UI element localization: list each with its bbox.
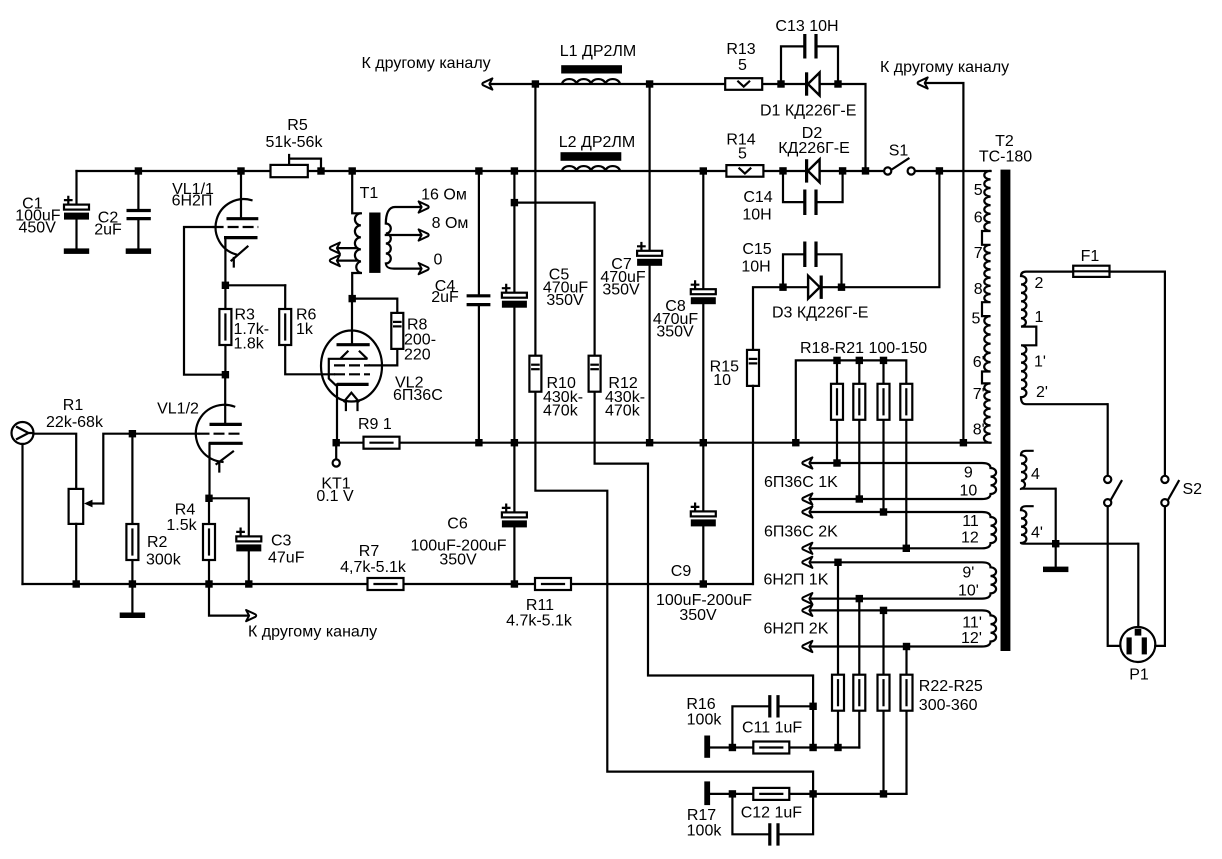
choke L1 winding: [562, 79, 620, 84]
svg-text:12: 12: [961, 530, 979, 547]
junction VL1/1 anode: [237, 167, 244, 174]
capacitor C1: [64, 171, 89, 248]
svg-text:R5: R5: [287, 117, 308, 134]
svg-text:47uF: 47uF: [268, 550, 305, 567]
svg-text:7: 7: [974, 245, 983, 262]
svg-text:К другому каналу: К другому каналу: [248, 624, 377, 641]
ground symbol at C2: [126, 248, 151, 254]
terminal bar R16: [704, 736, 710, 758]
wire input jack to R1 top: [33, 434, 76, 489]
svg-text:D3 КД226Г-Е: D3 КД226Г-Е: [772, 305, 868, 322]
svg-text:6Н2П 1K: 6Н2П 1K: [764, 572, 829, 589]
connector arrow winding 10: [802, 493, 812, 504]
svg-text:51k-56k: 51k-56k: [266, 134, 324, 151]
junction D3 anode: [779, 284, 786, 291]
junction R17 right: [809, 790, 816, 797]
svg-text:4.7k-5.1k: 4.7k-5.1k: [506, 613, 573, 630]
T1 secondary 0 tap: [386, 264, 420, 269]
junction R1 bottom: [73, 580, 80, 587]
VL2 anode bar: [337, 343, 370, 346]
junction R2 top: [129, 430, 136, 437]
wire R3 top to R6 top: [225, 284, 285, 286]
capacitor C9: [691, 443, 716, 584]
resistor R25: [901, 647, 913, 794]
junction C5 bottom: [511, 439, 518, 446]
svg-text:6П36С 2K: 6П36С 2K: [764, 524, 838, 541]
svg-text:S2: S2: [1183, 481, 1203, 498]
svg-text:ТС-180: ТС-180: [979, 149, 1032, 166]
svg-text:T1: T1: [360, 185, 379, 202]
diode D3: [808, 276, 821, 299]
grid bus R18-R21 top: [796, 360, 907, 442]
connector arrow winding 11': [802, 605, 812, 616]
svg-text:350V: 350V: [439, 552, 477, 569]
svg-text:S1: S1: [889, 143, 909, 160]
svg-text:470k: 470k: [605, 403, 641, 420]
potentiometer R1: [69, 489, 104, 524]
svg-text:0: 0: [434, 252, 443, 269]
junction R19 to pin 10: [856, 495, 863, 502]
svg-text:450V: 450V: [19, 219, 57, 236]
svg-text:R13: R13: [726, 41, 755, 58]
input jack XS1: [12, 422, 34, 444]
resistor R8: [370, 313, 404, 366]
junction D3 cathode: [838, 284, 845, 291]
svg-text:7': 7': [973, 386, 985, 403]
svg-text:4': 4': [1031, 525, 1043, 542]
capacitor C4: [467, 171, 491, 443]
capacitor C12 loop: [732, 794, 813, 834]
resistor R2: [126, 434, 138, 584]
resistor R9: [364, 437, 400, 449]
resistor R7: [368, 578, 404, 590]
svg-text:R16: R16: [686, 696, 715, 713]
capacitor C15 loop: [783, 254, 842, 287]
connector arrow winding 10': [802, 593, 812, 604]
connector arrow winding 9': [802, 557, 812, 568]
ground symbol at T2 heater: [1043, 544, 1068, 572]
connector arrow to other channel (bottom): [246, 610, 256, 621]
svg-text:5: 5: [738, 57, 747, 74]
svg-text:350V: 350V: [546, 292, 584, 309]
junction C5 top tap: [511, 199, 518, 206]
svg-text:100k: 100k: [687, 823, 723, 840]
VL2 heater: [344, 393, 358, 410]
svg-text:R22-R25: R22-R25: [919, 678, 983, 695]
wire C5 feed / R12 jog: [514, 171, 594, 356]
ground bus wire (bottom rail): [23, 583, 753, 585]
VL1/1 cathode lead: [224, 238, 226, 286]
capacitor C6: [502, 443, 527, 584]
svg-text:КД226Г-Е: КД226Г-Е: [778, 140, 850, 157]
wire cathode to C3: [209, 498, 249, 536]
junction R24 bottom: [880, 790, 887, 797]
junction C8 bottom / C9 top: [700, 439, 707, 446]
capacitor C11 plates: [770, 695, 778, 717]
svg-text:9: 9: [964, 465, 973, 482]
junction R4 bottom: [205, 580, 212, 587]
wire T1 bottom to R8: [352, 299, 397, 313]
resistor R20: [878, 360, 890, 512]
junction S1 output: [936, 167, 943, 174]
wire R1 bottom to ground bus: [75, 524, 77, 584]
svg-text:100k: 100k: [687, 712, 723, 729]
connector arrow 16 Ом: [419, 201, 429, 212]
svg-text:C14: C14: [743, 189, 772, 206]
capacitor C11 loop: [732, 706, 813, 747]
wire S2 pole A to P1: [1108, 506, 1121, 646]
T2 heater winding 6Н2П 1K: [811, 562, 997, 598]
junction VL1/2 cathode / R4: [205, 495, 212, 502]
svg-text:220: 220: [404, 347, 431, 364]
svg-text:2uF: 2uF: [431, 289, 459, 306]
svg-text:16 Ом: 16 Ом: [421, 187, 467, 204]
svg-text:10: 10: [960, 483, 978, 500]
T1 primary winding: [355, 213, 361, 273]
svg-text:11': 11': [962, 615, 982, 632]
svg-text:22k-68k: 22k-68k: [46, 414, 104, 431]
junction C6 bottom: [511, 580, 518, 587]
junction R24 to pin 11': [880, 607, 887, 614]
resistor R24: [878, 610, 890, 794]
wire top right arrow to T2 tap 8': [926, 83, 963, 443]
VL2 beam plates: [329, 352, 367, 386]
svg-text:10Н: 10Н: [742, 207, 771, 224]
wire heater common to P1 top: [1137, 544, 1139, 627]
wire to other channel (bottom): [209, 584, 247, 616]
junction R22 bottom: [834, 744, 841, 751]
VL1/1 grid (dashed): [213, 226, 259, 228]
junction VL2 cathode: [333, 439, 340, 446]
T2 heater winding 4': [1021, 506, 1138, 544]
svg-text:C11 1uF: C11 1uF: [742, 720, 802, 737]
junction cathode VL1/1 / R3 top: [222, 282, 229, 289]
junction C4 bottom: [475, 439, 482, 446]
svg-text:L2 ДР2ЛМ: L2 ДР2ЛМ: [559, 134, 635, 151]
junction C2 top: [135, 167, 142, 174]
svg-text:300k: 300k: [146, 552, 182, 569]
junction L1 output / C7: [646, 80, 653, 87]
svg-text:6': 6': [973, 354, 985, 371]
svg-text:P1: P1: [1129, 667, 1149, 684]
bias feed wire R17 row: [710, 793, 906, 795]
svg-text:C12 1uF: C12 1uF: [741, 805, 803, 822]
svg-text:350V: 350V: [602, 282, 640, 299]
svg-text:350V: 350V: [679, 607, 717, 624]
T1 primary bottom lead: [352, 273, 361, 299]
VL2 anode lead: [351, 299, 353, 344]
T1 secondary 16 Ohm tap: [386, 207, 420, 224]
junction R3 bottom / VL1/2 anode: [222, 371, 229, 378]
choke L1 core: [561, 65, 622, 73]
choke L2 winding: [562, 166, 620, 171]
svg-text:300-360: 300-360: [919, 697, 978, 714]
svg-text:1': 1': [1034, 354, 1046, 371]
switch S2 pole A: [1104, 476, 1121, 507]
VL2 cathode bar: [337, 383, 369, 386]
svg-text:R9 1: R9 1: [358, 416, 392, 433]
rheostat R5: [271, 155, 322, 177]
triode VL1/1 envelope: [216, 199, 252, 254]
junction grid bus at cathode rail: [792, 439, 799, 446]
svg-text:R18-R21 100-150: R18-R21 100-150: [800, 340, 927, 357]
B+ rail 1 (y=84): [491, 84, 866, 171]
junction D2 cathode: [839, 167, 846, 174]
triode VL1/2 envelope: [196, 405, 234, 462]
B+ rail (upper left, y=171): [77, 170, 991, 172]
T1 primary lead from rail: [352, 171, 361, 213]
resistor R21: [900, 384, 912, 549]
junction R20 bus: [880, 357, 887, 364]
resistor R10: [529, 84, 813, 794]
VL1/2 anode bar: [210, 423, 242, 426]
svg-text:C9: C9: [671, 563, 692, 580]
svg-text:8 Ом: 8 Ом: [432, 215, 469, 232]
svg-text:2uF: 2uF: [94, 222, 122, 239]
wire input jack sleeve down: [21, 444, 23, 584]
VL1/2 grid (dashed): [199, 433, 244, 435]
svg-text:1: 1: [1035, 309, 1044, 326]
VL2 screen grid (dashed): [334, 364, 370, 366]
terminal bar R17: [704, 781, 710, 805]
svg-text:К другому каналу: К другому каналу: [880, 59, 1009, 76]
svg-text:R2: R2: [147, 534, 168, 551]
cathode bus wire (y=443): [336, 442, 990, 444]
VL1/1 heater mark: [232, 247, 248, 267]
svg-text:350V: 350V: [656, 324, 694, 341]
capacitor C7: [637, 84, 662, 443]
svg-text:D1 КД226Г-Е: D1 КД226Г-Е: [760, 103, 856, 120]
junction C12 left: [729, 790, 736, 797]
svg-text:F1: F1: [1081, 248, 1100, 265]
svg-text:4,7k-5.1k: 4,7k-5.1k: [340, 559, 407, 576]
svg-text:L1 ДР2ЛМ: L1 ДР2ЛМ: [560, 43, 636, 60]
svg-text:VL1/2: VL1/2: [157, 401, 199, 418]
bias feed wire R16 row: [710, 746, 859, 748]
svg-text:10Н: 10Н: [741, 259, 770, 276]
pentode VL2 envelope: [321, 331, 382, 402]
svg-text:2: 2: [1035, 275, 1044, 292]
svg-text:0.1 V: 0.1 V: [316, 488, 354, 505]
junction R21 to pin 12: [903, 545, 910, 552]
diode D1: [807, 72, 820, 95]
junction L1 input: [532, 80, 539, 87]
VL1/1 cathode bar: [224, 236, 258, 239]
junction C3 bottom: [245, 580, 252, 587]
junction D1 branch to rail: [862, 167, 869, 174]
capacitor C5: [502, 285, 527, 443]
T1 core: [369, 213, 380, 273]
T2 heater winding 6П36С 2K: [811, 512, 997, 548]
VL1/1 anode bar: [227, 217, 259, 220]
switch S2 pole B: [1161, 476, 1178, 507]
capacitor C2: [127, 171, 151, 248]
T2 primary winding (anode): [982, 171, 991, 443]
junction winding 4 / 4': [1052, 540, 1059, 547]
wire 2' to S2 left pole: [1107, 404, 1109, 476]
VL1/1 anode lead: [240, 171, 242, 217]
connector arrow to other channel (top right): [918, 77, 928, 88]
svg-text:6П36С 1K: 6П36С 1K: [764, 474, 838, 491]
VL1/1 grid wire to R3 bottom: [184, 227, 225, 375]
svg-text:11: 11: [962, 513, 979, 530]
junction C11 left: [729, 744, 736, 751]
svg-text:5': 5': [972, 311, 984, 328]
svg-text:C3: C3: [271, 533, 292, 550]
wire S2 pole B to P1: [1155, 506, 1165, 646]
junction R18 to pin 9: [833, 459, 840, 466]
capacitor C14 plates: [805, 190, 816, 216]
resistor R17: [753, 788, 789, 800]
svg-text:10': 10': [958, 583, 979, 600]
connector arrow winding 12': [802, 641, 812, 652]
resistor R13: [725, 78, 762, 90]
T2 heater winding 4: [1021, 451, 1056, 489]
connector arrow 0: [419, 263, 429, 274]
svg-text:К другому каналу: К другому каналу: [362, 55, 491, 72]
capacitor C15 plates: [805, 242, 816, 268]
fuse F1: [1073, 266, 1109, 277]
T1 feedback tap arrow lower: [330, 255, 357, 266]
VL1/2 cathode bar: [209, 442, 243, 445]
svg-text:4: 4: [1031, 466, 1040, 483]
T1 secondary winding: [386, 224, 391, 264]
svg-text:6: 6: [974, 210, 983, 227]
junction D1 cathode: [834, 80, 841, 87]
junction R2 bottom: [129, 580, 136, 587]
resistor R18: [831, 360, 843, 463]
svg-text:C6: C6: [447, 516, 468, 533]
junction R22 to pin 9': [834, 559, 841, 566]
T2 core: [1001, 170, 1011, 651]
wire winding 4 down: [1055, 489, 1057, 544]
wire S1 output down to D3 row: [753, 171, 939, 350]
resistor R11: [535, 578, 571, 590]
mains plug P1: [1120, 627, 1155, 662]
resistor R16: [753, 742, 789, 754]
svg-text:R11: R11: [526, 597, 554, 614]
svg-text:8': 8': [973, 422, 985, 439]
capacitor C14 bypass loop: [783, 171, 843, 202]
capacitor C8: [691, 171, 716, 443]
svg-text:10: 10: [713, 372, 731, 389]
junction R16 right: [809, 744, 816, 751]
junction C4 top: [475, 167, 482, 174]
connector arrow to other channel (top left): [482, 78, 492, 89]
junction C9 bottom: [700, 580, 707, 587]
capacitor C12 plates: [770, 823, 778, 845]
resistor R23: [853, 599, 865, 748]
svg-text:2': 2': [1036, 384, 1048, 401]
junction R18 bus: [833, 357, 840, 364]
svg-text:1k: 1k: [296, 321, 314, 338]
junction C5 feed: [511, 167, 518, 174]
resistor R12: [589, 356, 814, 748]
junction T1 primary top: [349, 167, 356, 174]
T2 mains winding 2-1 / 1'-2': [1021, 272, 1108, 405]
test point KT1: [333, 443, 340, 467]
ground symbol at R2: [120, 584, 145, 618]
svg-text:6Н2П: 6Н2П: [172, 193, 213, 210]
svg-text:R7: R7: [359, 543, 380, 560]
resistor R14: [726, 165, 763, 177]
junction R5 wiper: [317, 167, 324, 174]
T2 heater winding 6П36С 1K: [811, 463, 997, 499]
svg-text:470k: 470k: [543, 403, 579, 420]
VL2 cathode lead: [336, 384, 338, 442]
svg-text:8: 8: [974, 281, 983, 298]
junction C11 right / bias feed: [809, 703, 816, 710]
resistor R22: [832, 562, 844, 747]
svg-text:6Н2П 2K: 6Н2П 2K: [764, 621, 829, 638]
ground symbol at C1: [64, 248, 89, 254]
svg-text:1.5k: 1.5k: [166, 517, 197, 534]
capacitor C13 bypass loop: [781, 46, 838, 84]
T1 feedback tap arrow upper: [330, 243, 357, 254]
svg-text:R4: R4: [175, 502, 196, 519]
connector arrow winding 12: [802, 543, 812, 554]
wire F1 to S2 right pole: [1110, 272, 1165, 476]
resistor R6: [279, 285, 334, 374]
svg-text:5: 5: [738, 146, 747, 163]
junction T1 bottom / VL2 anode: [349, 295, 356, 302]
VL1/2 heater mark: [217, 452, 234, 472]
T1 secondary 8 Ohm tap: [386, 234, 420, 236]
junction R20 to pin 11: [880, 508, 887, 515]
junction C7 bottom: [646, 439, 653, 446]
resistor R15: [747, 350, 759, 584]
svg-text:C15: C15: [742, 241, 771, 258]
VL1/2 anode lead: [224, 375, 226, 423]
connector arrow winding 11: [802, 506, 812, 517]
svg-text:1.8k: 1.8k: [234, 336, 265, 353]
junction R25 to pin 12': [903, 643, 910, 650]
resistor R3: [219, 285, 231, 374]
VL1/2 cathode lead: [208, 443, 210, 498]
svg-text:12': 12': [961, 630, 982, 647]
svg-text:9': 9': [962, 565, 974, 582]
capacitor C13 plates: [805, 34, 816, 59]
svg-text:C13 10Н: C13 10Н: [775, 18, 838, 35]
junction tap 8': [960, 439, 967, 446]
svg-text:R17: R17: [687, 807, 716, 824]
diode D2: [807, 159, 820, 182]
junction D2 anode: [779, 167, 786, 174]
junction D1 anode: [777, 80, 784, 87]
svg-text:6П36С: 6П36С: [393, 387, 443, 404]
junction R19 bus: [856, 357, 863, 364]
connector arrow winding 9: [802, 457, 812, 468]
svg-text:5: 5: [974, 182, 983, 199]
VL2 control grid (dashed): [334, 373, 370, 375]
junction R23 to pin 10': [856, 595, 863, 602]
switch S1: [884, 159, 915, 175]
wire R1 wiper to VL1/2 grid: [103, 434, 198, 504]
capacitor C3: [236, 529, 261, 584]
T2 heater winding 6Н2П 2K: [811, 610, 997, 646]
junction C8 top: [700, 167, 707, 174]
svg-text:T2: T2: [995, 133, 1014, 150]
resistor R19: [853, 360, 865, 499]
connector arrow 8 Ом: [419, 229, 429, 240]
svg-text:R1: R1: [63, 397, 84, 414]
choke L2 core: [561, 152, 622, 161]
resistor R4: [203, 498, 215, 584]
